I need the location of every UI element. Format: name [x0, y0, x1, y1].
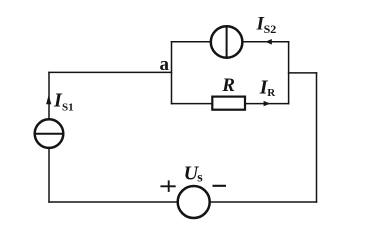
- wire middle left segment: [172, 103, 213, 105]
- polarity plus: [160, 180, 175, 192]
- wire bottom right: [210, 201, 317, 203]
- arrow IS1 current direction (up): [46, 95, 51, 104]
- arrow IR current direction (right): [264, 101, 271, 106]
- arrow IS2 current direction (left): [265, 39, 271, 45]
- svg-text:s: s: [197, 170, 203, 185]
- svg-text:a: a: [160, 54, 170, 75]
- wire bottom left: [49, 201, 178, 203]
- wire inner right vertical: [288, 42, 290, 104]
- wire inner left vertical: [171, 42, 173, 104]
- svg-text:R: R: [221, 75, 235, 96]
- wire left vertical lower: [48, 148, 50, 202]
- current source U1 IS1 (circle, horizontal bar): [35, 119, 64, 148]
- wire middle right segment: [245, 103, 289, 105]
- wire top right segment: [242, 41, 288, 43]
- polarity minus: [213, 185, 227, 187]
- wire node a horizontal: [49, 71, 172, 73]
- current source IS2 (circle, vertical bar): [211, 26, 243, 58]
- wire right vertical: [316, 73, 318, 202]
- wire top left segment: [172, 41, 211, 43]
- svg-text:R: R: [267, 87, 276, 99]
- svg-text:S2: S2: [264, 22, 277, 36]
- svg-text:S1: S1: [62, 102, 74, 114]
- voltage source US (empty circle): [178, 186, 210, 218]
- wire left vertical upper: [48, 72, 50, 119]
- wire right stub: [289, 72, 317, 74]
- resistor R body: [212, 97, 245, 110]
